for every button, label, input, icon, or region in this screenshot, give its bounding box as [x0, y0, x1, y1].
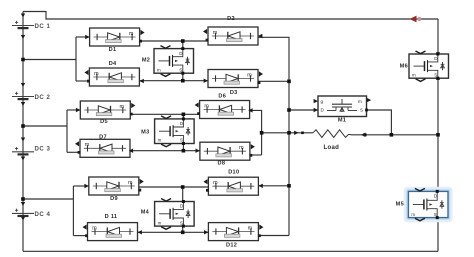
- svg-text:D2: D2: [227, 16, 235, 22]
- svg-text:D8: D8: [218, 160, 226, 166]
- svg-text:S: S: [180, 138, 183, 143]
- svg-text:M1: M1: [338, 118, 346, 124]
- svg-text:M2: M2: [142, 58, 150, 64]
- svg-text:M4: M4: [141, 210, 150, 216]
- svg-text:m: m: [94, 71, 99, 77]
- svg-text:m: m: [358, 99, 362, 104]
- svg-text:m: m: [213, 180, 218, 186]
- svg-text:D 11: D 11: [105, 214, 118, 220]
- svg-text:D3: D3: [230, 90, 238, 96]
- svg-text:m: m: [157, 67, 161, 72]
- svg-text:m: m: [239, 145, 244, 151]
- svg-text:S: S: [434, 212, 437, 217]
- svg-text:S: S: [434, 72, 437, 77]
- svg-text:S: S: [180, 220, 183, 225]
- svg-text:m: m: [129, 31, 134, 37]
- svg-text:m: m: [85, 142, 90, 148]
- svg-text:M3: M3: [141, 130, 149, 136]
- svg-text:S: S: [179, 67, 182, 72]
- svg-text:m: m: [128, 180, 133, 186]
- svg-text:Load: Load: [324, 145, 340, 151]
- svg-text:D5: D5: [100, 119, 108, 125]
- svg-text:m: m: [412, 72, 416, 77]
- svg-text:m: m: [92, 225, 97, 231]
- svg-text:m: m: [158, 220, 162, 225]
- svg-text:M6: M6: [400, 64, 408, 70]
- svg-text:D7: D7: [99, 135, 107, 141]
- svg-text:M5: M5: [396, 201, 404, 207]
- svg-text:S: S: [360, 108, 363, 113]
- svg-text:m: m: [247, 72, 252, 78]
- svg-text:D10: D10: [228, 170, 239, 176]
- svg-text:m: m: [120, 104, 125, 110]
- svg-text:D4: D4: [109, 61, 117, 67]
- svg-text:m: m: [204, 103, 209, 109]
- svg-text:D6: D6: [218, 94, 226, 100]
- svg-text:D1: D1: [109, 47, 117, 53]
- svg-text:DC 1: DC 1: [35, 23, 51, 30]
- svg-text:m: m: [248, 225, 253, 231]
- svg-text:DC 3: DC 3: [35, 146, 51, 153]
- svg-text:m: m: [213, 30, 218, 36]
- svg-text:DC 4: DC 4: [35, 211, 51, 218]
- svg-text:m: m: [411, 212, 415, 217]
- svg-text:g: g: [321, 99, 324, 104]
- svg-text:D9: D9: [110, 196, 118, 202]
- svg-text:m: m: [158, 138, 162, 143]
- svg-text:D12: D12: [226, 242, 237, 248]
- svg-text:DC 2: DC 2: [35, 94, 51, 101]
